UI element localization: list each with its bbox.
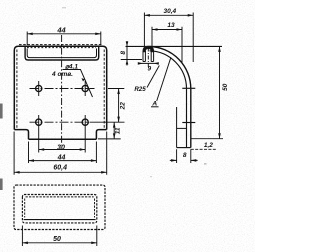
hole row2 centerline [30,121,96,123]
hidden line inner right wall [103,50,105,129]
hole row1 right extension [108,88,124,90]
dim 13 arrows [152,28,182,31]
hole col right tick row1 [84,81,86,96]
dim 60.4 line [14,171,107,173]
top slot outer outline [25,47,99,60]
scan speck near 1.2 [204,163,207,165]
R25 leader [147,66,159,88]
front view bottom step left [14,130,28,140]
dim 9 / ext line bottom of hook [121,59,142,61]
leader line 1.2 [191,148,217,150]
hook cap filled [143,46,154,52]
dim 8 left arrows [126,42,129,65]
dim 8 bottom ext verticals [177,149,191,163]
hole top-right [82,85,88,91]
hole top-left [36,85,42,91]
foot connector horizontal [177,127,187,129]
hole row1 centerline [30,88,95,90]
dim 8 left line [126,41,128,66]
dim 44 bottom line [29,160,97,162]
top slot inner outline [27,49,96,58]
strip left line [186,89,188,148]
bend tick upper [182,87,195,89]
dim 11 arrows [113,122,116,139]
dim 60.4 arrows [14,171,107,174]
dim 50 line [219,46,221,138]
hole col right tick row2 + ext [84,115,86,153]
hook left leg [143,51,145,62]
bottom view inner top doubling [26,196,94,198]
dim 50 bottom ext [191,138,223,140]
dim 22 line [118,89,120,123]
ext line bottom edge right [98,138,121,140]
dim 8 bottom line segments [170,159,198,161]
bottom view inner side doubling right [94,199,96,218]
foot bottom edge [177,147,191,149]
dim 30.4 arrows [144,14,193,17]
hidden line inner left wall [16,50,18,129]
dim 9 line [138,62,159,64]
hole col left tick row1 [38,81,40,96]
scan artifact left edge lower [0,179,3,191]
dim 30 arrows [39,148,85,151]
dim 30 line [39,149,85,151]
paper speckle noise [0,0,1,1]
dim 13 line [152,29,182,31]
dim 9 arrows outside [138,62,159,65]
scan artifact left edge upper [0,104,3,119]
dim 13 ext lines [152,27,182,63]
dim 50 arrows [218,46,221,138]
bottom view inner rrect B [24,219,96,221]
front view bottom step right [96,130,106,140]
hook centerline [147,48,149,68]
side view top edge line [126,45,223,47]
dim 44 top ext lines [27,32,101,46]
front view body outline [14,46,106,129]
dim 22 arrows [117,89,120,123]
dim 44 bottom arrows [29,159,97,162]
leader for hole callout [63,70,93,98]
hole bottom-left [36,119,42,125]
front view bottom edge [29,138,97,140]
dim 60.4 ext lines [14,132,107,175]
dim 30.4 ext lines [144,13,193,63]
hook right leg [151,51,153,62]
dim 11 line [113,122,115,139]
dim 30.4 line [144,14,193,16]
bottom view inner side doubling left [24,199,26,218]
dim 8 bottom arrows [171,159,196,162]
hole row2 right extension [95,121,125,123]
arrowhead on hole leader [82,78,85,81]
dim 44 ext lines [29,142,97,164]
strip right line [190,89,192,148]
scan speck top [62,7,66,8]
vertical centerline [61,35,63,145]
bottom view dim 50 ext lines [22,226,96,247]
bottom view inner rrect A [22,195,96,223]
foot left vertical [176,107,178,148]
bottom view dim 50 arrows [22,242,96,245]
A underline [151,106,159,108]
top slot dotted top band [27,47,96,49]
dim 44 top arrows [27,33,101,36]
hidden line top lip edge [19,44,103,46]
hole bottom-right [82,119,88,125]
bottom view dim 50 line [22,242,96,244]
hole col left tick row2 + ext [38,115,40,153]
A leader [157,57,171,101]
R25 inner arc [150,51,187,89]
dim 44 top line [27,33,101,35]
bottom view outer rect [14,185,105,229]
R25 outer arc [150,47,191,89]
bend tick lower [182,122,195,124]
